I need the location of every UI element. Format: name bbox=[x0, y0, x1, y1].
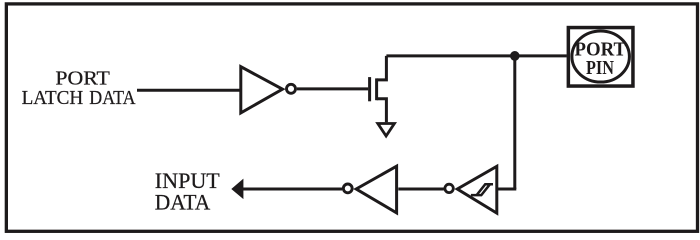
svg-text:DATA: DATA bbox=[155, 189, 211, 214]
svg-text:PIN: PIN bbox=[586, 57, 614, 79]
svg-text:DATA: DATA bbox=[89, 87, 135, 109]
svg-text:LATCH: LATCH bbox=[22, 87, 84, 109]
